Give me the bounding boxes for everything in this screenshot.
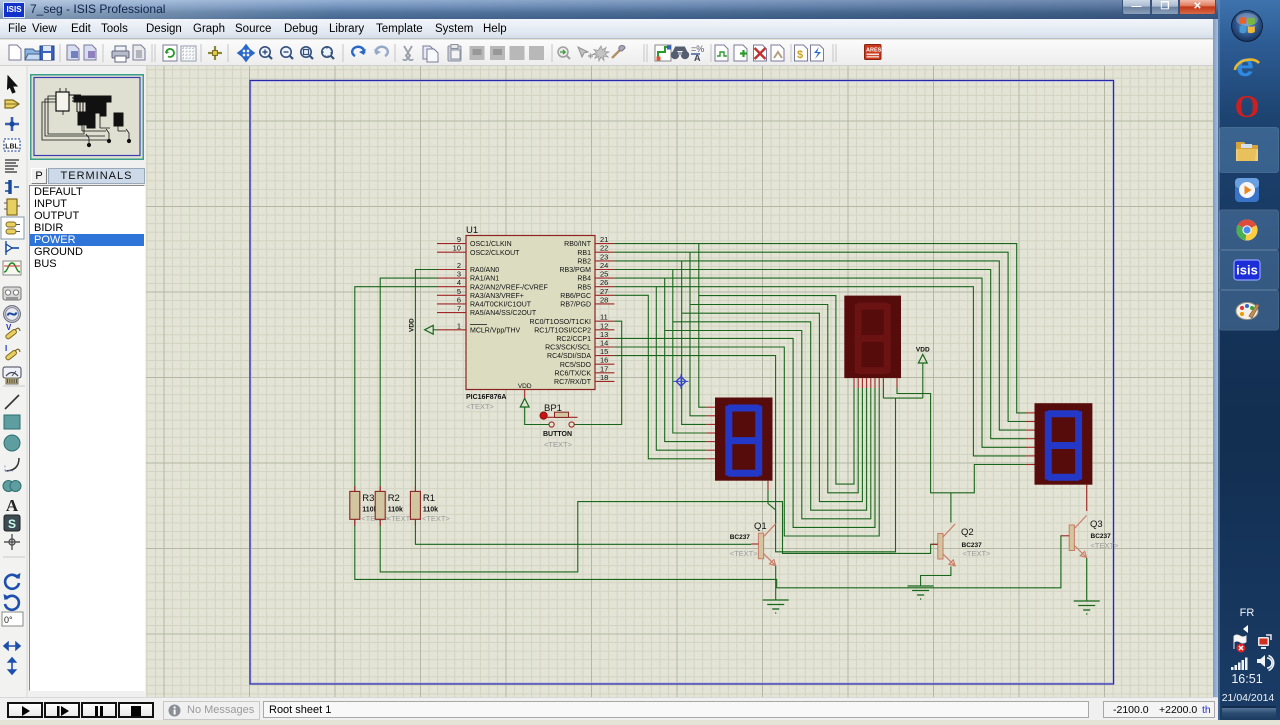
svg-text:RA2/AN2/VREF-/CVREF: RA2/AN2/VREF-/CVREF bbox=[470, 284, 548, 291]
wire Q3 emitter to ground bbox=[1086, 558, 1088, 601]
svg-text:Q3: Q3 bbox=[1090, 519, 1103, 530]
svg-text:VDD: VDD bbox=[518, 383, 532, 390]
taskbar bbox=[1218, 0, 1280, 720]
svg-text:BP1: BP1 bbox=[544, 403, 562, 414]
svg-text:O: O bbox=[1235, 88, 1260, 124]
U1 pin 7 RA5/AN4/SS/C2OUT bbox=[437, 312, 466, 314]
title bar bbox=[0, 0, 1218, 19]
svg-text:PIC16F876A: PIC16F876A bbox=[466, 394, 506, 401]
wire RB4 row to right display bbox=[614, 278, 1026, 447]
svg-text:ARES: ARES bbox=[866, 48, 882, 54]
svg-text:1: 1 bbox=[457, 321, 461, 330]
svg-text:<TEXT>: <TEXT> bbox=[963, 549, 992, 558]
svg-text:16:51: 16:51 bbox=[1231, 672, 1262, 686]
DS3 left pin stubs bbox=[1026, 412, 1035, 414]
DS3 common pin bbox=[1086, 485, 1088, 511]
toolbar (icons placeholder) bbox=[0, 40, 1213, 66]
svg-text:110k: 110k bbox=[388, 507, 403, 514]
svg-text:RB0/INT: RB0/INT bbox=[564, 241, 592, 248]
menu bar bbox=[0, 19, 1213, 39]
wire RC3 to middle display bbox=[614, 347, 879, 536]
wire Q2 emitter to ground bbox=[921, 567, 951, 587]
wire RB3 branch to middle display bbox=[673, 322, 867, 510]
svg-text:RA5/AN4/SS/C2OUT: RA5/AN4/SS/C2OUT bbox=[470, 310, 537, 317]
U1 pin 6 RA4/T0CKI/C1OUT bbox=[437, 303, 466, 305]
svg-text:A: A bbox=[6, 496, 19, 515]
wire RA0 to R1 bbox=[415, 270, 437, 492]
power terminal VDD at MCLR bbox=[425, 325, 434, 334]
U1 pin 3 RA1/AN1 bbox=[437, 277, 466, 279]
sheet border bbox=[251, 81, 1113, 683]
origin marker node bbox=[674, 374, 689, 389]
left rail (icons placeholder) bbox=[0, 66, 28, 697]
wire RA1 to R2 bbox=[380, 278, 437, 491]
schematic canvas bbox=[146, 66, 1213, 697]
svg-text:Q1: Q1 bbox=[754, 521, 767, 532]
svg-text:RC3/SCK/SCL: RC3/SCK/SCL bbox=[545, 345, 591, 352]
DS2 common pin bbox=[896, 378, 898, 388]
svg-text:RC4/SDI/SDA: RC4/SDI/SDA bbox=[547, 353, 591, 360]
U1 pin 5 RA3/AN3/VREF+ bbox=[437, 294, 466, 296]
svg-text:RB5: RB5 bbox=[577, 284, 591, 291]
wire RB2 branch to left display bbox=[682, 261, 707, 425]
svg-text:Q2: Q2 bbox=[961, 527, 974, 538]
svg-text:<TEXT>: <TEXT> bbox=[422, 514, 451, 523]
U1 pin 2 RA0/AN0 bbox=[437, 269, 466, 271]
pushbutton BP1 bbox=[540, 412, 547, 419]
U1 pin 16 RC5/SDO bbox=[595, 363, 614, 365]
svg-text:<TEXT>: <TEXT> bbox=[730, 549, 759, 558]
svg-text:22: 22 bbox=[600, 244, 608, 253]
svg-text:RC0/T1OSO/T1CKI: RC0/T1OSO/T1CKI bbox=[530, 319, 592, 326]
DS1 common pin bbox=[767, 481, 769, 490]
svg-text:RB2: RB2 bbox=[577, 259, 591, 266]
svg-text:OSC2/CLKOUT: OSC2/CLKOUT bbox=[470, 250, 520, 257]
svg-text:6: 6 bbox=[457, 295, 461, 304]
power terminal VDD below U1 bbox=[520, 398, 529, 407]
svg-text:10: 10 bbox=[453, 244, 461, 253]
U1 pin 18 RC7/RX/DT bbox=[595, 380, 614, 382]
wire DS2 common to Q2 collector and DS3 bbox=[897, 388, 1026, 493]
resistor R3 110k bbox=[354, 486, 356, 491]
svg-text:<TEXT>: <TEXT> bbox=[544, 440, 573, 449]
svg-text:28: 28 bbox=[600, 295, 608, 304]
U1 pin 4 RA2/AN2/VREF-/CVREF bbox=[437, 286, 466, 288]
svg-text:RC1/T1OSI/CCP2: RC1/T1OSI/CCP2 bbox=[534, 327, 591, 334]
U1 pin 15 RC4/SDI/SDA bbox=[595, 355, 614, 357]
svg-text:e: e bbox=[1236, 47, 1254, 83]
svg-text:BC237: BC237 bbox=[962, 542, 983, 549]
U1 pin 14 RC3/SCK/SCL bbox=[595, 346, 614, 348]
svg-text:U1: U1 bbox=[466, 225, 478, 236]
status bar bbox=[0, 697, 1218, 720]
wire RC4 to middle display bbox=[614, 356, 895, 552]
svg-text:RB6/PGC: RB6/PGC bbox=[560, 293, 591, 300]
U1 pin 13 RC2/CCP1 bbox=[595, 337, 614, 339]
wire VDD to middle display pin 8 bbox=[922, 363, 924, 398]
wire RA2 to R3 bbox=[355, 287, 437, 492]
wire RB3 row to right display bbox=[614, 270, 1026, 439]
U1 pin 9 OSC1/CLKIN bbox=[437, 243, 466, 245]
svg-text:FR: FR bbox=[1240, 607, 1255, 619]
svg-text:RB1: RB1 bbox=[577, 250, 591, 257]
svg-text:110k: 110k bbox=[423, 507, 438, 514]
svg-text:isis: isis bbox=[1236, 263, 1258, 278]
left panel bbox=[28, 66, 146, 697]
svg-text:$: $ bbox=[797, 49, 803, 61]
microcontroller U1 PIC16F876A bbox=[466, 236, 595, 390]
transistor Q1 BC237 bbox=[758, 533, 763, 559]
ground below Q2 bbox=[908, 585, 934, 587]
svg-text:RB4: RB4 bbox=[577, 276, 591, 283]
svg-text:VDD: VDD bbox=[916, 347, 930, 354]
U1 pin 17 RC6/TX/CK bbox=[595, 372, 614, 374]
wire DS1 common to Q1 collector bbox=[768, 490, 776, 524]
DS2 bottom pin stubs bbox=[853, 378, 855, 388]
svg-text:RB3/PGM: RB3/PGM bbox=[559, 267, 591, 274]
wire R3 to Q3 base bbox=[355, 519, 1062, 588]
wire RB1 branch to left display bbox=[690, 252, 706, 416]
svg-text:R2: R2 bbox=[388, 493, 400, 504]
DS1 left pin stubs bbox=[706, 406, 715, 408]
wire RB1 row to right display bbox=[614, 252, 1026, 421]
wire R1 to Q1 base bbox=[415, 519, 751, 544]
wire Q2 collector branch bbox=[950, 493, 952, 523]
7-segment display DS1 (left, lit) bbox=[715, 398, 773, 481]
U1 pin 27 RB6/PGC bbox=[595, 294, 614, 296]
svg-text:VDD: VDD bbox=[409, 318, 416, 332]
U1 pin 21 RB0/INT bbox=[595, 243, 614, 245]
svg-text:LBL: LBL bbox=[5, 144, 19, 151]
U1 pin 11 RC0/T1OSO/T1CKI bbox=[595, 320, 614, 322]
svg-text:MCLR/Vpp/THV: MCLR/Vpp/THV bbox=[470, 327, 521, 334]
svg-text:RA1/AN1: RA1/AN1 bbox=[470, 276, 499, 283]
wire RB2 branch to middle display bbox=[682, 313, 863, 501]
svg-text:RC2/CCP1: RC2/CCP1 bbox=[556, 336, 591, 343]
wire R2 to Q2 base bbox=[380, 502, 938, 572]
svg-text:V: V bbox=[6, 323, 12, 332]
wire RB4 branch to left display bbox=[665, 278, 707, 442]
svg-text:18: 18 bbox=[600, 373, 608, 382]
svg-text:R3: R3 bbox=[362, 493, 374, 504]
svg-text:OSC1/CLKIN: OSC1/CLKIN bbox=[470, 241, 512, 248]
svg-text:0°: 0° bbox=[4, 615, 13, 625]
svg-text:S: S bbox=[8, 517, 16, 531]
svg-text:R1: R1 bbox=[423, 493, 435, 504]
resistor R2 110k bbox=[379, 486, 381, 491]
svg-text:RA4/T0CKI/C1OUT: RA4/T0CKI/C1OUT bbox=[470, 302, 532, 309]
wire RB2 row to right display bbox=[614, 261, 1026, 430]
ground below Q1 bbox=[763, 599, 789, 601]
svg-text:7: 7 bbox=[457, 304, 461, 313]
wire RB0 branch to middle display bbox=[699, 296, 854, 485]
U1 pin 24 RB3/PGM bbox=[595, 269, 614, 271]
transistor Q2 BC237 bbox=[938, 534, 943, 560]
U1 pin 28 RB7/PGD bbox=[595, 303, 614, 305]
U1 pin 22 RB1 bbox=[595, 251, 614, 253]
resistor R1 110k bbox=[414, 486, 416, 491]
svg-text:RA3/AN3/VREF+: RA3/AN3/VREF+ bbox=[470, 293, 524, 300]
wire RB6 to left display pin 7 bbox=[614, 295, 706, 459]
wire RB0 row to right display bbox=[614, 244, 1026, 413]
wire RB0 branch to left display bbox=[699, 244, 707, 408]
wire RC0 to button BP1 bbox=[574, 321, 622, 424]
wire RB5 row to right display bbox=[614, 287, 1026, 456]
svg-text:BC237: BC237 bbox=[730, 534, 751, 541]
ground below Q3 bbox=[1074, 600, 1100, 602]
wire RB5 branch to left display bbox=[656, 287, 706, 451]
U1 pin 25 RB4 bbox=[595, 277, 614, 279]
7-segment display DS2 (middle, unlit) bbox=[844, 296, 901, 379]
U1 pin 12 RC1/T1OSI/CCP2 bbox=[595, 329, 614, 331]
wire RB1 branch to middle display bbox=[690, 305, 858, 493]
svg-text:RC7/RX/DT: RC7/RX/DT bbox=[554, 379, 592, 386]
svg-text:BC237: BC237 bbox=[1091, 533, 1112, 540]
window right border bbox=[1213, 0, 1218, 720]
wire RB4 branch to middle display bbox=[665, 331, 871, 519]
svg-text:RC6/TX/CK: RC6/TX/CK bbox=[554, 370, 591, 377]
wire VDD to button bbox=[525, 407, 549, 425]
U1 pin 26 RB5 bbox=[595, 286, 614, 288]
wire RC2 to middle display bbox=[614, 338, 875, 527]
U1 pin 1 MCLR/Vpp/THV bbox=[437, 329, 466, 331]
svg-text:I: I bbox=[5, 344, 7, 353]
wire Q1 emitter to ground bbox=[775, 566, 777, 600]
wire RB3 branch to left display bbox=[673, 270, 707, 434]
svg-text:RB7/PGD: RB7/PGD bbox=[560, 302, 591, 309]
svg-text:BUTTON: BUTTON bbox=[543, 431, 572, 438]
svg-text:21/04/2014: 21/04/2014 bbox=[1222, 692, 1275, 704]
svg-text:RA0/AN0: RA0/AN0 bbox=[470, 267, 499, 274]
svg-text:RC5/SDO: RC5/SDO bbox=[560, 362, 592, 369]
U1 pin 23 RB2 bbox=[595, 260, 614, 262]
svg-text:<TEXT>: <TEXT> bbox=[1091, 541, 1120, 550]
transistor Q3 BC237 bbox=[1069, 525, 1074, 551]
svg-text:<TEXT>: <TEXT> bbox=[466, 402, 495, 411]
7-segment display DS3 (right, lit) bbox=[1035, 403, 1093, 485]
U1 pin 10 OSC2/CLKOUT bbox=[437, 251, 466, 253]
